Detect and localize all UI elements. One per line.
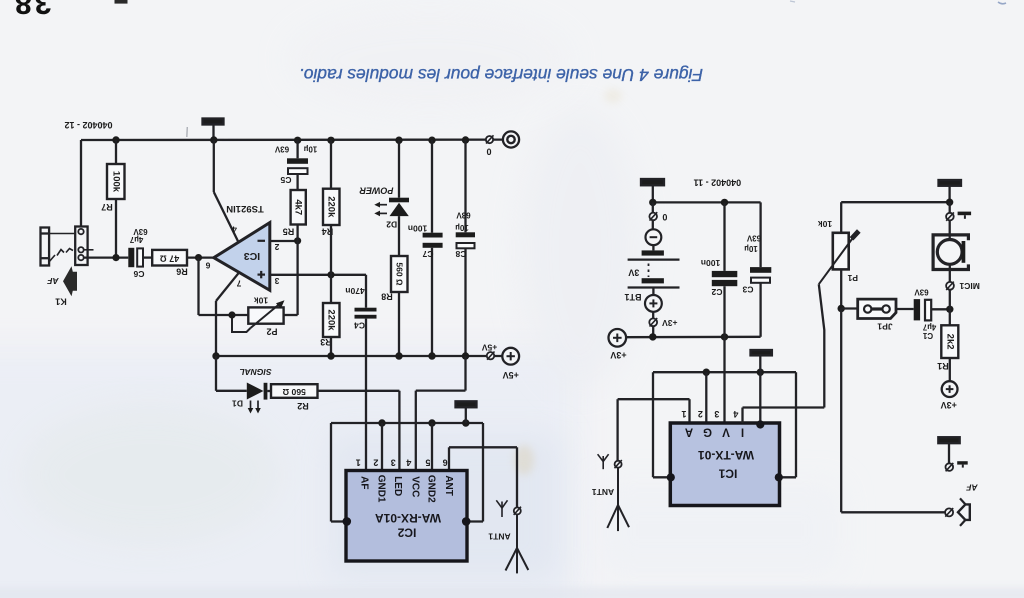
svg-text:C1: C1 xyxy=(922,331,933,340)
wire pin6 to antenna xyxy=(449,447,517,471)
node junction dots +5V rail xyxy=(212,352,469,359)
svg-text:10k: 10k xyxy=(818,219,832,229)
op-amp IC3 xyxy=(214,223,270,291)
resistor R3 xyxy=(320,275,339,356)
svg-text:100n: 100n xyxy=(408,224,427,234)
artifact tick xyxy=(186,127,189,137)
svg-text:3V: 3V xyxy=(628,267,639,277)
node dots TX ground bus xyxy=(703,369,764,376)
svg-text:P1: P1 xyxy=(847,273,858,283)
node C1/R1/mic junction xyxy=(946,306,953,313)
svg-text:IC1: IC1 xyxy=(718,466,737,480)
wire R6 to output node xyxy=(187,256,214,258)
ground xyxy=(751,350,772,424)
svg-text:4: 4 xyxy=(733,409,738,419)
svg-text:POWER: POWER xyxy=(359,186,394,196)
svg-text:AF: AF xyxy=(47,276,60,286)
svg-text:IC2: IC2 xyxy=(397,526,416,540)
wire ground rail xyxy=(81,138,503,141)
svg-text:38: 38 xyxy=(12,0,51,21)
LED D1 xyxy=(216,356,267,414)
module IC2 WA-RX-01A xyxy=(343,471,471,562)
svg-text:4: 4 xyxy=(232,224,237,234)
svg-text:220k: 220k xyxy=(325,196,336,218)
svg-text:AF: AF xyxy=(966,482,979,492)
svg-text:R8: R8 xyxy=(381,292,393,302)
svg-text:R7: R7 xyxy=(101,202,113,212)
wire 0V bus xyxy=(653,202,761,267)
resistor R1 xyxy=(937,309,958,381)
svg-text:7: 7 xyxy=(236,278,241,288)
svg-text:2: 2 xyxy=(698,409,703,419)
svg-text:3: 3 xyxy=(391,458,396,468)
microphone MIC1 xyxy=(933,202,980,309)
wire pin2 stub xyxy=(705,372,707,423)
svg-text:10µ: 10µ xyxy=(455,223,469,232)
svg-text:470n: 470n xyxy=(345,286,364,296)
svg-text:1: 1 xyxy=(681,409,686,419)
resistor R2 xyxy=(267,384,317,411)
svg-text:47 Ω: 47 Ω xyxy=(160,254,180,264)
svg-text:100n: 100n xyxy=(701,258,720,268)
module IC1 WA-TX-01 xyxy=(667,420,783,505)
node 0 connection point xyxy=(649,202,667,221)
wire pin5 stub xyxy=(431,423,433,471)
capacitor C3 xyxy=(742,233,771,294)
arrow AF output xyxy=(63,266,77,296)
svg-text:C2: C2 xyxy=(711,287,722,297)
antenna ANT1 xyxy=(592,399,629,531)
battery BT1 xyxy=(624,220,679,312)
svg-text:2: 2 xyxy=(274,242,279,252)
svg-text:2k2: 2k2 xyxy=(944,334,955,350)
svg-text:MIC1: MIC1 xyxy=(959,281,980,291)
svg-text:4µ7: 4µ7 xyxy=(922,322,936,331)
node junction dots top rail xyxy=(112,136,469,144)
svg-text:+5V: +5V xyxy=(503,370,519,380)
svg-text:+5V: +5V xyxy=(481,342,497,352)
wire module ground bus xyxy=(331,423,483,522)
svg-text:6: 6 xyxy=(443,458,448,468)
node P2 wiper junction xyxy=(228,311,235,318)
svg-text:GND1: GND1 xyxy=(375,475,386,503)
svg-text:IC3: IC3 xyxy=(244,250,261,262)
svg-text:560 Ω: 560 Ω xyxy=(395,262,405,286)
node P1/JP1/AF junction xyxy=(838,305,845,312)
capacitor C1 xyxy=(896,288,950,341)
potentiometer P2 xyxy=(199,258,285,337)
wire pin3 stub VCC xyxy=(723,337,725,423)
ground xyxy=(456,401,477,423)
svg-text:63V: 63V xyxy=(456,210,471,219)
wire C6 to R6 xyxy=(143,256,152,258)
svg-text:C7: C7 xyxy=(422,249,433,259)
capacitor C2 xyxy=(701,202,737,337)
wire +3V bus xyxy=(626,283,761,337)
svg-text:D2: D2 xyxy=(386,220,397,230)
svg-text:040402 - 11: 040402 - 11 xyxy=(694,178,742,188)
svg-text:JP1: JP1 xyxy=(877,322,892,332)
svg-text:3: 3 xyxy=(274,276,279,286)
svg-text:10µ: 10µ xyxy=(303,144,317,153)
pin 7 supply xyxy=(216,273,241,356)
node +5V connection point xyxy=(481,342,497,359)
wire TX ground bus xyxy=(653,372,796,477)
svg-text:A: A xyxy=(685,425,693,437)
svg-text:WA-TX-01: WA-TX-01 xyxy=(698,448,754,462)
svg-text:63V: 63V xyxy=(914,288,929,297)
wire P1 wiper to pin4 xyxy=(743,284,825,423)
capacitor C5 xyxy=(274,140,317,190)
node AF connection point xyxy=(945,508,953,517)
svg-text:0: 0 xyxy=(486,146,491,156)
resistor R8 xyxy=(381,256,407,356)
terminal 0V socket xyxy=(503,131,519,147)
wire jack tip to node xyxy=(84,256,129,258)
svg-text:V: V xyxy=(722,425,730,437)
svg-text:ANT1: ANT1 xyxy=(592,487,614,497)
wire AF input xyxy=(841,309,945,513)
node dots 0V bus xyxy=(649,199,728,206)
capacitor C8 xyxy=(455,140,475,356)
terminal +3V mic xyxy=(941,381,958,410)
pin numbers IC2 xyxy=(356,458,448,468)
terminal +5V xyxy=(502,348,519,380)
pin letters IC1 xyxy=(685,425,744,437)
ground xyxy=(939,180,962,202)
wire pin 2 xyxy=(270,241,298,252)
wire C4 to pin1 xyxy=(365,319,367,471)
connector K1 jack xyxy=(41,227,94,266)
svg-text:6: 6 xyxy=(205,261,210,271)
ground AF input xyxy=(938,437,967,471)
node +3V connection point xyxy=(649,312,677,337)
svg-text:K1: K1 xyxy=(55,297,67,307)
svg-text:220k: 220k xyxy=(325,309,336,331)
node output junction xyxy=(195,254,202,261)
node 0 connection point xyxy=(486,135,494,156)
node pin2/R5 xyxy=(294,237,301,244)
svg-text:ANT1: ANT1 xyxy=(488,531,510,541)
wire P1 top to ground xyxy=(841,202,949,233)
svg-text:+3V: +3V xyxy=(610,350,626,360)
svg-text:0: 0 xyxy=(662,212,667,222)
resistor R5 xyxy=(283,190,306,241)
svg-text:C5: C5 xyxy=(280,175,291,185)
svg-text:WA-RX-01A: WA-RX-01A xyxy=(375,511,441,525)
capacitor C6 xyxy=(128,227,147,279)
svg-text:C6: C6 xyxy=(133,269,144,279)
wire R2 to pin3 xyxy=(318,391,400,471)
svg-text:BT1: BT1 xyxy=(624,292,641,302)
svg-text:LED: LED xyxy=(392,476,403,496)
svg-text:10k: 10k xyxy=(254,296,268,306)
wire pin 3 xyxy=(270,275,366,286)
svg-text:5: 5 xyxy=(425,458,430,468)
svg-text:AF: AF xyxy=(358,476,369,489)
node R7/C6 junction xyxy=(112,254,119,261)
ground xyxy=(203,119,224,141)
node pin3/R3 xyxy=(327,271,334,278)
svg-text:4: 4 xyxy=(406,458,411,468)
svg-text:TS921IN: TS921IN xyxy=(226,203,264,214)
svg-text:R5: R5 xyxy=(283,226,295,236)
node junction dots ground bus xyxy=(378,419,469,426)
svg-text:C4: C4 xyxy=(354,320,365,330)
terminal +3V left xyxy=(609,329,627,360)
svg-text:560 Ω: 560 Ω xyxy=(282,387,306,397)
svg-text:ANT: ANT xyxy=(443,475,454,496)
node dots +3V bus xyxy=(649,333,728,340)
resistor R7 xyxy=(101,140,124,258)
antenna ANT1 xyxy=(488,447,528,573)
svg-text:63V: 63V xyxy=(133,227,148,236)
wire +5V rail xyxy=(216,355,502,357)
svg-text:040402 - 12: 040402 - 12 xyxy=(64,120,112,130)
edge mark xyxy=(115,0,128,4)
svg-text:+3V: +3V xyxy=(662,318,678,328)
arrow AF input xyxy=(958,498,970,526)
node mic ground dot xyxy=(946,199,953,206)
svg-text:63V: 63V xyxy=(746,233,761,242)
wire P2 to pin2 xyxy=(284,241,298,315)
svg-text:100k: 100k xyxy=(110,171,121,193)
svg-text:GND2: GND2 xyxy=(425,475,436,503)
pin numbers IC1 xyxy=(681,409,738,419)
svg-text:SIGNAL: SIGNAL xyxy=(239,367,271,377)
svg-text:D1: D1 xyxy=(232,399,243,409)
svg-text:VCC: VCC xyxy=(409,476,420,497)
capacitor C4 xyxy=(345,275,376,330)
wire pin2 stub xyxy=(381,423,383,471)
svg-text:R1: R1 xyxy=(937,361,949,371)
wire P1 bottom xyxy=(840,269,842,308)
wire rail to jack sleeve xyxy=(80,140,82,227)
svg-text:Figure 4 Une seule interface p: Figure 4 Une seule interface pour les mo… xyxy=(299,65,703,85)
svg-text:R2: R2 xyxy=(297,401,309,411)
svg-text:1: 1 xyxy=(356,458,361,468)
svg-text:2: 2 xyxy=(373,458,378,468)
LED D2 xyxy=(374,140,409,256)
svg-text:63V: 63V xyxy=(274,144,289,153)
wire VCC feed to pin4 xyxy=(416,356,466,471)
svg-text:C3: C3 xyxy=(742,284,753,294)
jumper JP1 xyxy=(841,299,896,331)
edge marks top xyxy=(998,2,1006,4)
capacitor C7 xyxy=(408,140,443,356)
svg-text:G: G xyxy=(703,425,712,437)
svg-text:4k7: 4k7 xyxy=(292,199,303,215)
svg-text:R6: R6 xyxy=(176,266,188,276)
svg-text:C8: C8 xyxy=(455,249,466,259)
svg-text:I: I xyxy=(741,425,744,437)
resistor R4 xyxy=(322,140,340,275)
wire antenna feed xyxy=(618,399,690,423)
svg-text:10µ: 10µ xyxy=(744,244,758,253)
ground xyxy=(641,179,664,202)
svg-text:3: 3 xyxy=(714,409,719,419)
svg-text:+3V: +3V xyxy=(941,400,957,410)
svg-text:P2: P2 xyxy=(266,326,277,336)
potentiometer P1 xyxy=(818,219,859,284)
resistor R6 xyxy=(152,250,188,276)
pin 4 supply xyxy=(214,140,239,242)
